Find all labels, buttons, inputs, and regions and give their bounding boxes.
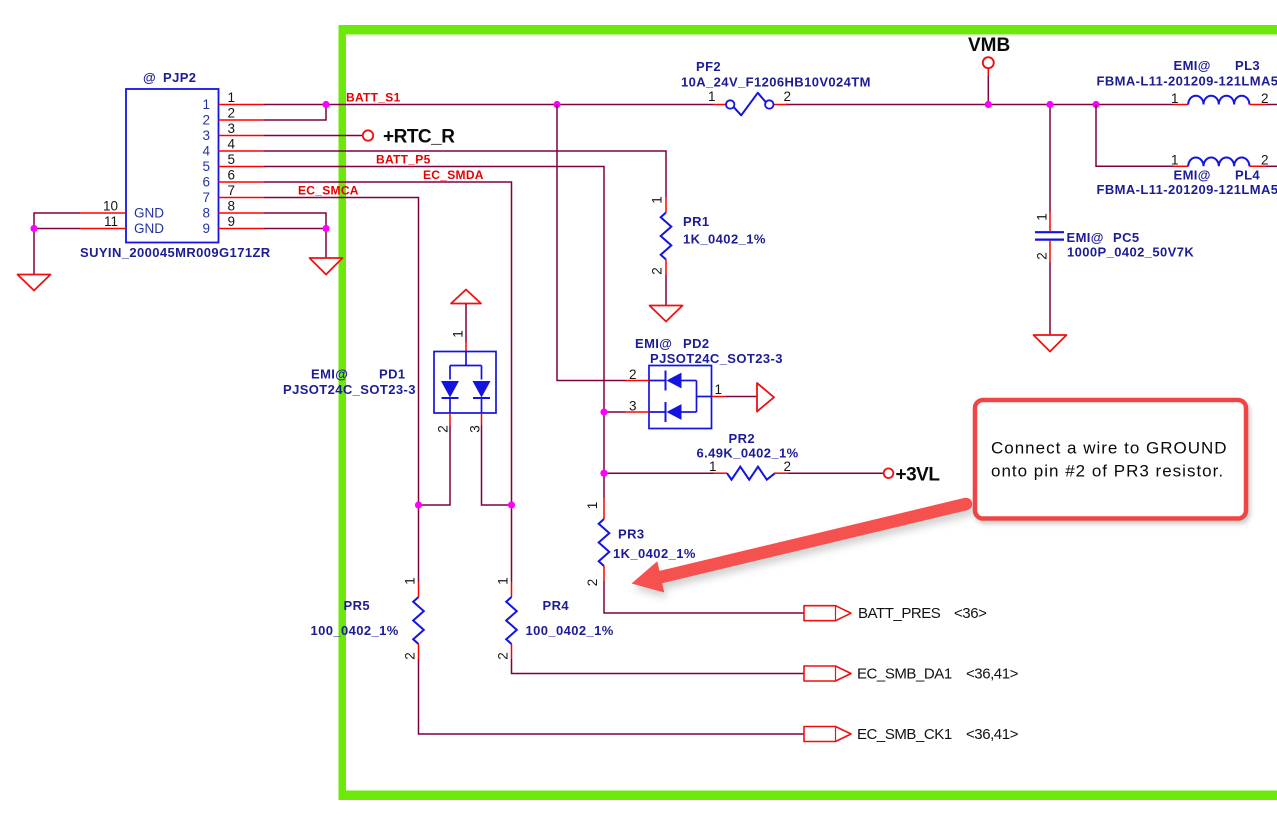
wire EC_SMCA (pin7 down to PR5 column) [264, 184, 419, 583]
junction PR2 / BATT_P5 [600, 470, 607, 477]
pin 9 stub of PJP2 [219, 214, 265, 229]
wire VMB to PL4 [1096, 105, 1173, 167]
svg-text:<36>: <36> [954, 605, 987, 622]
pin 6 stub of PJP2 [219, 168, 265, 183]
pin 2 of PD2 [626, 367, 650, 382]
svg-text:EC_SMB_DA1: EC_SMB_DA1 [857, 666, 952, 683]
svg-text:100_0402_1%: 100_0402_1% [311, 623, 399, 638]
svg-text:11: 11 [104, 214, 118, 229]
wire VMB to PC5 [1049, 105, 1051, 212]
ground (PC5) [1034, 335, 1067, 352]
sheet border (green frame) [339, 25, 1277, 800]
pin 4 stub of PJP2 [219, 137, 265, 152]
svg-text:2: 2 [436, 425, 451, 433]
svg-text:1: 1 [709, 459, 717, 474]
svg-text:2: 2 [784, 89, 792, 104]
svg-text:2: 2 [650, 267, 665, 275]
junction PC5 drop [1046, 101, 1053, 108]
junction PD1 pin3 / EC_SMDA [508, 501, 515, 508]
svg-text:VMB: VMB [968, 35, 1010, 56]
wire pin8/pin9 to ground [264, 213, 326, 258]
svg-text:7: 7 [228, 183, 236, 198]
resistor PR1 [650, 196, 766, 305]
svg-text:EC_SMB_CK1: EC_SMB_CK1 [857, 726, 952, 743]
pin 3 stub of PJP2 [219, 121, 265, 136]
svg-text:PR1: PR1 [683, 214, 710, 229]
ground (left of PJP2) [18, 275, 51, 291]
junction PD2 pin3 / BATT_P5 [600, 408, 607, 415]
pin 1 of PD2 [712, 382, 758, 397]
svg-text:1: 1 [708, 89, 716, 104]
svg-text:PF2: PF2 [696, 59, 721, 74]
fuse PF2 [681, 59, 871, 115]
svg-text:1: 1 [585, 502, 600, 510]
inductor PL3 [1097, 58, 1277, 106]
svg-text:EMI@: EMI@ [1174, 58, 1211, 73]
pin 10 stub of PJP2 [80, 199, 126, 214]
pin 5 stub of PJP2 [219, 152, 265, 167]
svg-text:5: 5 [228, 152, 236, 167]
junction pin9 [322, 225, 329, 232]
svg-text:EMI@: EMI@ [635, 336, 672, 351]
svg-text:PR3: PR3 [618, 527, 645, 542]
svg-text:8: 8 [228, 199, 236, 214]
svg-text:EC_SMDA: EC_SMDA [423, 168, 484, 182]
wire EC_SMDA (pin6 down to PR4 column) [264, 168, 512, 582]
svg-text:1: 1 [451, 330, 466, 338]
svg-text:10A_24V_F1206HB10V024TM: 10A_24V_F1206HB10V024TM [681, 75, 871, 90]
svg-text:2: 2 [784, 459, 792, 474]
capacitor PC5 [1035, 212, 1195, 336]
svg-text:9: 9 [228, 214, 236, 229]
node +RTC_R [363, 127, 455, 148]
resistor PR4 [496, 577, 805, 673]
svg-text:1: 1 [496, 577, 511, 585]
pin 2 stub of PJP2 [219, 106, 265, 121]
svg-text:+3VL: +3VL [896, 465, 941, 486]
svg-text:+RTC_R: +RTC_R [383, 127, 455, 148]
svg-text:2: 2 [1035, 252, 1050, 260]
wire pin4 net to PR1 [264, 151, 666, 197]
svg-text:1: 1 [403, 577, 418, 585]
svg-text:1K_0402_1%: 1K_0402_1% [683, 232, 766, 247]
svg-text:3: 3 [202, 128, 210, 143]
svg-text:FBMA-L11-201209-121LMA50: FBMA-L11-201209-121LMA50 [1097, 182, 1277, 197]
svg-text:GND: GND [134, 206, 164, 221]
wire BATT_S1 rail [264, 91, 1173, 121]
svg-text:onto pin #2 of PR3 resistor.: onto pin #2 of PR3 resistor. [991, 462, 1224, 481]
svg-text:EMI@: EMI@ [311, 367, 348, 382]
wire PD1 pin1 [451, 304, 467, 352]
connector PJP2 [80, 70, 271, 260]
resistor PR5 [311, 577, 805, 734]
svg-text:PR4: PR4 [543, 598, 570, 613]
svg-text:BATT_PRES: BATT_PRES [858, 605, 941, 622]
svg-text:EC_SMCA: EC_SMCA [298, 184, 359, 198]
junction VMB [985, 101, 992, 108]
junction left GND [30, 225, 37, 232]
svg-text:1: 1 [715, 382, 723, 397]
svg-text:9: 9 [202, 221, 210, 236]
svg-text:2: 2 [403, 652, 418, 660]
svg-text:EMI@: EMI@ [1174, 168, 1211, 183]
svg-text:EMI@: EMI@ [1067, 230, 1104, 245]
svg-text:5: 5 [202, 159, 210, 174]
svg-text:2: 2 [1261, 153, 1269, 168]
junction BATT_S1 / pin2 [322, 101, 329, 108]
svg-text:7: 7 [202, 190, 210, 205]
svg-text:2: 2 [202, 113, 210, 128]
wire BATT_P5 (pin5 to PD2/PR2/PR3 column) [264, 153, 604, 498]
inductor PL4 [1097, 153, 1277, 198]
pin 8 stub of PJP2 [219, 199, 265, 214]
svg-text:GND: GND [134, 221, 164, 236]
svg-text:1K_0402_1%: 1K_0402_1% [613, 546, 696, 561]
svg-text:<36,41>: <36,41> [966, 726, 1019, 743]
svg-text:PD1: PD1 [379, 367, 406, 382]
callout box [975, 400, 1246, 519]
svg-text:PR2: PR2 [729, 431, 756, 446]
power node VMB [968, 35, 1010, 105]
junction PL4 drop [1092, 101, 1099, 108]
svg-text:PJSOT24C_SOT23-3: PJSOT24C_SOT23-3 [650, 351, 783, 366]
junction PD1 pin2 / EC_SMCA [415, 501, 422, 508]
ground (PR1) [650, 306, 683, 322]
pin 2 of PD1 [419, 413, 451, 505]
pin 7 stub of PJP2 [219, 183, 265, 198]
wire +RTC_R [264, 135, 363, 137]
svg-text:3: 3 [629, 399, 637, 414]
svg-text:2: 2 [228, 106, 236, 121]
off-page arrow (PD2 pin1) [757, 383, 774, 412]
svg-text:2: 2 [585, 579, 600, 587]
pin 3 of PD1 [468, 413, 512, 505]
callout arrow to PR3 pin 2 [632, 504, 967, 593]
svg-text:4: 4 [202, 144, 210, 159]
svg-text:1: 1 [1171, 153, 1179, 168]
svg-text:2: 2 [629, 367, 637, 382]
off-page flag BATT_PRES [804, 605, 987, 622]
svg-text:3: 3 [468, 425, 483, 433]
pin 11 stub of PJP2 [80, 214, 126, 229]
svg-text:1000P_0402_50V7K: 1000P_0402_50V7K [1067, 245, 1194, 260]
svg-text:PJP2: PJP2 [163, 70, 196, 85]
wire BATT_S1 drop to PD2 pin2 [557, 105, 626, 381]
svg-text:PL4: PL4 [1235, 168, 1260, 183]
svg-text:Connect a wire to GROUND: Connect a wire to GROUND [991, 439, 1228, 458]
svg-text:PC5: PC5 [1113, 230, 1140, 245]
off-page flag EC_SMB_CK1 [804, 726, 1019, 743]
resistor PR3 [585, 498, 804, 614]
svg-text:@: @ [143, 70, 156, 85]
svg-text:1: 1 [650, 196, 665, 204]
dual diode U PD1 [283, 352, 496, 414]
junction BATT_S1 / PD2 drop [553, 101, 560, 108]
wire GND left of PJP2 [34, 213, 80, 275]
svg-text:4: 4 [228, 137, 236, 152]
svg-text:PJSOT24C_SOT23-3: PJSOT24C_SOT23-3 [283, 382, 416, 397]
node +3VL [884, 465, 941, 486]
pin 3 of PD2 [604, 399, 649, 414]
svg-text:1: 1 [1035, 213, 1050, 221]
svg-text:2: 2 [496, 652, 511, 660]
svg-text:BATT_P5: BATT_P5 [376, 153, 431, 167]
svg-text:3: 3 [228, 121, 236, 136]
svg-text:FBMA-L11-201209-121LMA50: FBMA-L11-201209-121LMA50 [1097, 74, 1277, 89]
dual diode U PD2 [635, 336, 783, 429]
svg-text:BATT_S1: BATT_S1 [346, 91, 401, 105]
svg-text:6: 6 [202, 175, 210, 190]
svg-text:PD2: PD2 [683, 336, 710, 351]
pin 1 stub of PJP2 [219, 90, 265, 105]
ground (below PJP2 pin9) [310, 258, 343, 275]
svg-text:8: 8 [202, 206, 210, 221]
svg-text:1: 1 [202, 97, 210, 112]
svg-text:<36,41>: <36,41> [966, 666, 1019, 683]
svg-text:1: 1 [228, 90, 236, 105]
svg-text:PR5: PR5 [344, 598, 371, 613]
svg-text:10: 10 [103, 199, 118, 214]
svg-text:SUYIN_200045MR009G171ZR: SUYIN_200045MR009G171ZR [80, 245, 271, 260]
resistor PR2 [604, 431, 884, 480]
svg-text:6: 6 [228, 168, 236, 183]
svg-text:100_0402_1%: 100_0402_1% [526, 623, 614, 638]
power arrow (PD1 pin 1) [451, 290, 481, 304]
svg-text:PL3: PL3 [1235, 58, 1260, 73]
off-page flag EC_SMB_DA1 [804, 666, 1019, 683]
